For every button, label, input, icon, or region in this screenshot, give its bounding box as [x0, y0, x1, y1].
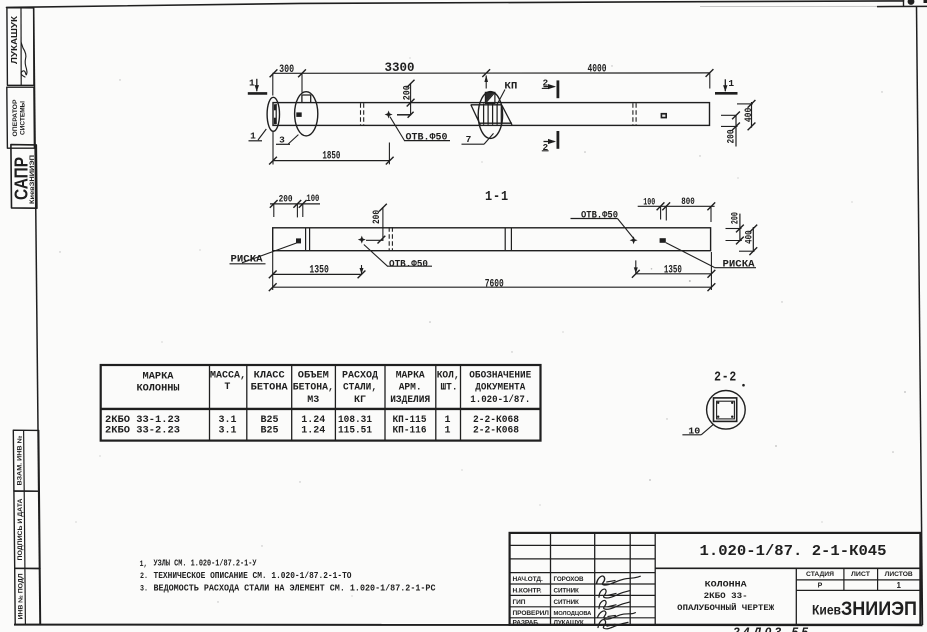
svg-text:100: 100 [306, 194, 319, 205]
sheet bottom border line [14, 624, 923, 627]
1-1: ОТВ.Ф50 label right with leader [571, 218, 618, 220]
callout 7 leader and label [462, 143, 485, 145]
svg-text:НАЧ.ОТД.: НАЧ.ОТД. [513, 576, 543, 583]
svg-text:МАРКА: МАРКА [143, 371, 174, 382]
svg-text:БЕТОНА: БЕТОНА [251, 382, 288, 393]
1-1: dim 1350 right [636, 273, 712, 275]
svg-text:2КБО 33-2.23: 2КБО 33-2.23 [105, 425, 180, 436]
svg-text:ИЗДЕЛИЯ: ИЗДЕЛИЯ [390, 394, 430, 405]
svg-text:1-1: 1-1 [485, 190, 509, 205]
svg-text:ОТВ.Ф50: ОТВ.Ф50 [389, 259, 428, 270]
svg-text:КОЛОННА: КОЛОННА [705, 580, 748, 590]
1-1: vertical dim 200 at hole [382, 207, 384, 240]
section marker 2 lower [557, 131, 560, 149]
svg-text:КП-116: КП-116 [393, 425, 427, 436]
svg-text:115.51: 115.51 [338, 425, 372, 436]
1-1: right end extension lines [726, 228, 742, 230]
svg-text:СИСТЕМЫ: СИСТЕМЫ [20, 101, 27, 135]
svg-text:400: 400 [744, 230, 755, 244]
section marker 1 (right): down arrow and thick line [715, 92, 738, 95]
section marker 2 upper [557, 80, 560, 98]
svg-text:200: 200 [279, 194, 293, 205]
svg-text:УЗЛЫ СМ. 1.020-1/87.2-1-У: УЗЛЫ СМ. 1.020-1/87.2-1-У [154, 559, 258, 569]
document number band [655, 567, 920, 569]
column head tab outline [302, 95, 311, 102]
svg-text:ТЕХНИЧЕСКОЕ ОПИСАНИЕ СМ. 1.020: ТЕХНИЧЕСКОЕ ОПИСАНИЕ СМ. 1.020-1/87.2-1-… [154, 571, 352, 581]
svg-text:ЛУКАШУК: ЛУКАШУК [554, 619, 584, 626]
svg-text:СТАДИЯ: СТАДИЯ [806, 571, 835, 578]
extension line at left end [272, 73, 274, 95]
svg-text:300: 300 [279, 64, 294, 76]
1-1: joint double line right [504, 228, 506, 250]
1-1: overall dim 7600 [273, 286, 712, 288]
1-1: hole ОТВ.Ф50 star mark right [630, 236, 638, 244]
svg-text:ОТВ.Ф50: ОТВ.Ф50 [581, 210, 618, 221]
svg-text:ОБЪЕМ: ОБЪЕМ [298, 370, 329, 381]
handwritten signatures [597, 576, 641, 585]
svg-text:КГ: КГ [354, 394, 366, 405]
svg-text:1850: 1850 [322, 151, 340, 163]
left margin box: ИНВ № ПОДЛ [15, 568, 41, 624]
svg-text:КОЛ,: КОЛ, [437, 370, 460, 381]
svg-text:ЛИСТОВ: ЛИСТОВ [885, 571, 914, 578]
svg-text:1: 1 [445, 425, 451, 436]
sheet right border line [917, 6, 923, 625]
svg-text:В25: В25 [261, 425, 279, 436]
extension marker arrow at КП (4000 start) [485, 76, 487, 89]
svg-text:200: 200 [403, 85, 414, 100]
svg-text:Р: Р [818, 583, 823, 590]
svg-text:24Д03-55: 24Д03-55 [732, 625, 811, 632]
svg-text:108.31: 108.31 [338, 414, 372, 425]
ОТВ.Ф50 label with leader [390, 117, 405, 141]
svg-text:400: 400 [744, 108, 755, 123]
1-1: РИСКА label right with leader [666, 243, 715, 268]
stage/sheet mini table [796, 579, 920, 581]
1-1: dashed double line at стык [388, 227, 390, 250]
svg-text:КП-115: КП-115 [393, 414, 427, 425]
svg-text:СТАЛИ,: СТАЛИ, [343, 382, 377, 393]
1-1: column bar outline [273, 228, 711, 251]
title block vertical lines (signature section) [550, 533, 552, 625]
left margin box: САПР КиевЗНИИЭП [11, 145, 37, 209]
vertical dim 200 at hole [410, 83, 412, 115]
svg-text:ПРОВЕРИЛ: ПРОВЕРИЛ [513, 610, 550, 617]
2-2: detail circle [707, 391, 746, 430]
1-1: РИСКА mark left [296, 238, 301, 243]
1-1: top-left dim line 200/100 [270, 203, 320, 205]
left margin box: ВЗАМ. ИНВ № [13, 430, 39, 491]
drawing name cell [795, 568, 797, 625]
svg-text:ЗНИИЭП: ЗНИИЭП [841, 599, 917, 620]
svg-text:4000: 4000 [588, 64, 607, 76]
sheet top border line (slightly skewed scan) [7, 1, 904, 8]
svg-text:ОПЕРАТОР: ОПЕРАТОР [12, 99, 19, 137]
svg-text:2.: 2. [140, 572, 148, 581]
svg-text:1.24: 1.24 [301, 414, 325, 425]
detail balloon 3 (column head) [295, 92, 318, 136]
svg-text:2КБО 33-: 2КБО 33- [704, 591, 748, 601]
left end oval detail balloon [267, 97, 279, 131]
svg-text:3.1: 3.1 [219, 425, 237, 436]
scan noise speckles [59, 57, 906, 602]
svg-text:7600: 7600 [485, 279, 504, 291]
svg-text:1: 1 [728, 78, 734, 89]
svg-text:2-2-К068: 2-2-К068 [473, 425, 519, 436]
1-1: РИСКА label left with leader [242, 243, 297, 263]
signature squiggle in ЛУКАШУК box [21, 42, 27, 77]
svg-text:РАЗРАБ.: РАЗРАБ. [513, 619, 540, 626]
2-2: inner square with rebar dots [717, 401, 735, 419]
section marker 1 (left): down arrow [256, 79, 258, 91]
svg-text:1: 1 [249, 78, 255, 89]
1-1: ОТВ.Ф50 label left with leader [364, 245, 388, 267]
dim 1850 line with ticks [273, 160, 390, 162]
svg-text:1350: 1350 [664, 264, 682, 276]
1-1: top-right dim line 100/800 [638, 205, 715, 207]
svg-text:М3: М3 [307, 394, 319, 405]
extension line at 300 [301, 73, 303, 92]
1-1: hole ОТВ.Ф50 star mark [358, 236, 366, 244]
svg-text:3: 3 [279, 134, 285, 145]
faint paper fold line top right [700, 5, 927, 7]
svg-text:КЛАСС: КЛАСС [254, 370, 285, 381]
hole ОТВ.Ф50 star mark [385, 111, 393, 119]
svg-text:1: 1 [445, 414, 451, 425]
callout 10 leader and label [682, 434, 701, 436]
svg-text:ОПАЛУБОЧНЫЙ ЧЕРТЕЖ: ОПАЛУБОЧНЫЙ ЧЕРТЕЖ [677, 602, 775, 613]
svg-text:ЛУКАШУК: ЛУКАШУК [10, 15, 19, 64]
svg-text:АРМ.: АРМ. [399, 382, 422, 393]
svg-text:РИСКА: РИСКА [723, 258, 755, 269]
break mark (dashed) in bar at x360 [360, 103, 362, 125]
corner stamp box top right, partially cut [903, 0, 905, 7]
svg-text:МОЛОДЦОВА: МОЛОДЦОВА [554, 611, 593, 617]
1-1: joint double line left [305, 228, 307, 250]
КП embedded plate: hatched parallelogram [471, 105, 481, 125]
top view: column bar outline [273, 103, 710, 126]
callout 1 leader and label [258, 129, 266, 140]
section marker 1 (left): thick line [248, 92, 267, 95]
svg-text:200: 200 [727, 130, 738, 144]
2-2: outer square (column section) [714, 398, 737, 422]
left margin box: ЛУКАШУК + signature [7, 8, 34, 86]
svg-text:МАССА,: МАССА, [210, 370, 246, 381]
svg-text:200: 200 [731, 212, 742, 224]
svg-text:СИТНИК: СИТНИК [554, 599, 579, 606]
риска mark on column head [296, 112, 301, 117]
svg-text:МАРКА: МАРКА [396, 370, 425, 381]
specification table outer border [101, 365, 541, 441]
1-1: РИСКА mark right [660, 238, 666, 243]
svg-text:1.020-1/87.: 1.020-1/87. [470, 394, 530, 405]
svg-text:1.020-1/87. 2-1-К045: 1.020-1/87. 2-1-К045 [700, 544, 887, 560]
extension line at right end [709, 73, 711, 88]
svg-text:2: 2 [542, 78, 548, 89]
svg-text:СИТНИК: СИТНИК [554, 588, 579, 595]
svg-text:ВЗАМ. ИНВ №: ВЗАМ. ИНВ № [16, 435, 23, 485]
svg-text:100: 100 [643, 197, 655, 208]
callout 3 leader and label [288, 135, 298, 144]
svg-text:ИНВ № ПОДЛ: ИНВ № ПОДЛ [18, 574, 25, 620]
svg-text:БЕТОНА,: БЕТОНА, [293, 382, 334, 393]
svg-text:Н.КОНТР.: Н.КОНТР. [513, 588, 542, 595]
detail balloon around КП [478, 92, 502, 139]
svg-text:ГОРОХОВ: ГОРОХОВ [554, 576, 584, 583]
title block outer border [510, 533, 921, 625]
svg-text:10: 10 [688, 425, 700, 436]
table header separator (thick) [101, 408, 541, 410]
svg-text:3.: 3. [140, 584, 148, 593]
svg-text:ДОКУМЕНТА: ДОКУМЕНТА [475, 382, 525, 393]
svg-text:ШТ.: ШТ. [441, 382, 458, 393]
left margin box: ОПЕРАТОР СИСТЕМЫ [7, 87, 35, 148]
svg-text:3300: 3300 [385, 60, 415, 75]
svg-text:ОБОЗНАЧЕНИЕ: ОБОЗНАЧЕНИЕ [469, 370, 531, 381]
svg-text:2-2: 2-2 [714, 371, 737, 386]
svg-text:РИСКА: РИСКА [231, 254, 263, 265]
svg-text:2КБО 33-1.23: 2КБО 33-1.23 [105, 414, 180, 425]
svg-text:1,: 1, [140, 560, 148, 569]
svg-text:Киев: Киев [812, 602, 841, 618]
svg-text:1: 1 [896, 581, 901, 590]
svg-text:ГИП: ГИП [513, 599, 526, 606]
КП plate above bar with diagonal fill [485, 92, 495, 103]
table column lines [209, 365, 211, 441]
left end embedded channel marks [275, 104, 277, 124]
left margin box: ПОДПИСЬ И ДАТА [14, 491, 40, 569]
vertical dim 400 (right end) [751, 102, 753, 128]
svg-text:В25: В25 [261, 414, 279, 425]
top view: overall dimension line 300/3300/4000 [273, 72, 710, 74]
svg-text:1350: 1350 [309, 264, 329, 276]
sheet left frame line [34, 8, 40, 625]
svg-text:Т: Т [224, 381, 230, 392]
vertical dim 200 (right end) [735, 115, 737, 146]
svg-text:РАСХОД: РАСХОД [342, 370, 378, 381]
1-1: dim 1350 left [273, 273, 362, 275]
svg-text:7: 7 [466, 134, 472, 145]
svg-text:КиевЗНИИЭП: КиевЗНИИЭП [29, 155, 36, 204]
1-1: vertical dim 400 right [752, 227, 754, 252]
svg-text:1: 1 [250, 130, 256, 141]
svg-text:КОЛОННЫ: КОЛОННЫ [137, 382, 180, 393]
svg-text:3.1: 3.1 [219, 414, 237, 425]
svg-text:ВЕДОМОСТЬ РАСХОДА СТАЛИ НА ЭЛЕ: ВЕДОМОСТЬ РАСХОДА СТАЛИ НА ЭЛЕМЕНТ СМ. 1… [154, 583, 437, 593]
svg-text:КП: КП [504, 80, 517, 92]
1-1: vertical dim 200 right [739, 214, 741, 242]
svg-text:ОТВ.Ф50: ОТВ.Ф50 [406, 132, 448, 143]
svg-text:ПОДПИСЬ И ДАТА: ПОДПИСЬ И ДАТА [18, 498, 24, 561]
break mark (dashed) in bar at x634 [632, 103, 634, 125]
embedded plate mark in bar right section [661, 113, 667, 119]
svg-text:ЛИСТ: ЛИСТ [851, 571, 870, 578]
svg-text:2-2-К068: 2-2-К068 [473, 414, 519, 425]
svg-text:1.24: 1.24 [301, 425, 325, 436]
title block row lines (signature section) [510, 544, 656, 546]
svg-text:200: 200 [372, 210, 383, 224]
svg-text:800: 800 [681, 197, 695, 208]
right end extension lines [737, 103, 753, 105]
